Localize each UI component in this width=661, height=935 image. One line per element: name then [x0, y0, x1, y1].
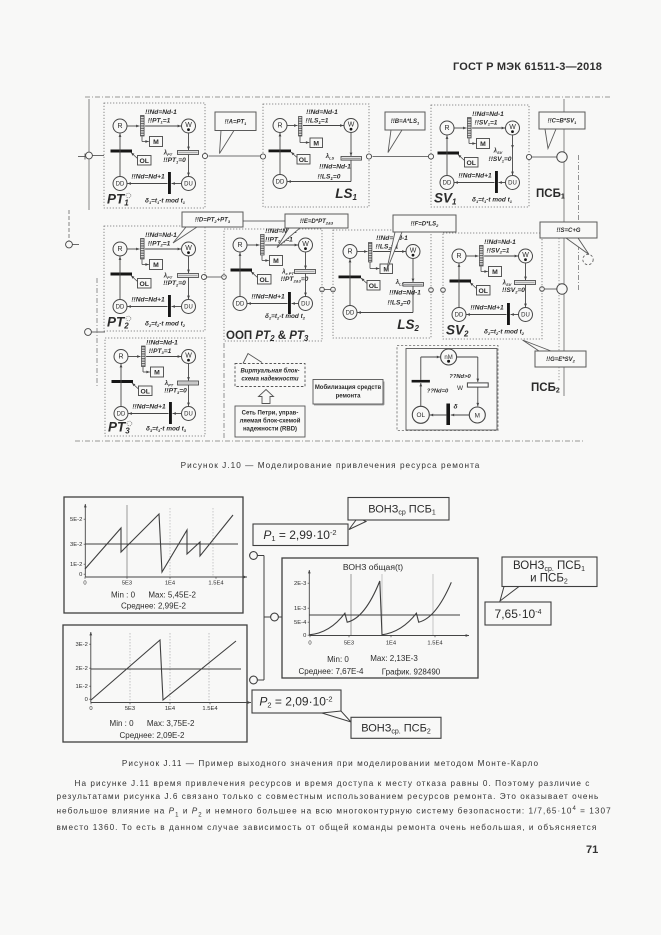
- svg-text:δ1=t1-t mod t1: δ1=t1-t mod t1: [145, 198, 186, 205]
- svg-text:!!PT2=1: !!PT2=1: [148, 240, 171, 247]
- svg-text:M: M: [154, 370, 160, 377]
- svg-text:R: R: [117, 123, 122, 130]
- svg-text:ВОНЗ общая(t): ВОНЗ общая(t): [343, 562, 403, 572]
- svg-text:5E-4: 5E-4: [294, 620, 307, 626]
- svg-text:R: R: [456, 253, 461, 260]
- svg-text:DD: DD: [346, 311, 355, 317]
- svg-text:λLS: λLS: [325, 154, 335, 160]
- svg-text:λc PT: λc PT: [281, 270, 294, 276]
- svg-text:!!Nd=Nd-1: !!Nd=Nd-1: [306, 109, 338, 116]
- svg-text:R: R: [117, 246, 122, 253]
- svg-text:DU: DU: [184, 182, 193, 188]
- svg-text:0: 0: [79, 572, 82, 578]
- svg-text:ремонта: ремонта: [336, 394, 362, 400]
- svg-text:1.5E4: 1.5E4: [202, 706, 218, 712]
- svg-text:0: 0: [85, 697, 88, 703]
- svg-text:!!Nd=Nd-1: !!Nd=Nd-1: [484, 239, 516, 246]
- svg-text:W: W: [509, 124, 516, 131]
- svg-text:!!Nd=Nd-1: !!Nd=Nd-1: [145, 232, 177, 239]
- svg-text:!!SV1=0: !!SV1=0: [489, 156, 512, 163]
- svg-text:0: 0: [308, 641, 311, 647]
- svg-text:DD: DD: [276, 180, 285, 186]
- svg-text:Мобилизация средств: Мобилизация средств: [315, 384, 382, 391]
- svg-text:!!Nd=Nd+1: !!Nd=Nd+1: [470, 305, 504, 312]
- svg-text:Среднее: 7,67E-4: Среднее: 7,67E-4: [299, 667, 365, 676]
- svg-text:OL: OL: [369, 283, 378, 290]
- svg-text:SV2: SV2: [446, 323, 469, 339]
- svg-text:!!PT3=0: !!PT3=0: [164, 388, 187, 395]
- svg-text:δ1=t1-t mod t1: δ1=t1-t mod t1: [472, 197, 513, 204]
- svg-text:1E4: 1E4: [165, 581, 176, 587]
- svg-text:5E-2: 5E-2: [70, 517, 82, 523]
- svg-text:7,65·10-4: 7,65·10-4: [495, 607, 542, 621]
- svg-text:1E4: 1E4: [165, 706, 176, 712]
- svg-text:OL: OL: [466, 160, 475, 167]
- svg-text:DD: DD: [116, 182, 125, 188]
- svg-text:R: R: [444, 125, 449, 132]
- svg-text:!!LS1=1: !!LS1=1: [306, 118, 329, 125]
- svg-text:R: R: [118, 354, 123, 361]
- svg-text:OL: OL: [140, 388, 149, 395]
- svg-text:OL: OL: [139, 158, 148, 165]
- svg-text:0: 0: [303, 633, 306, 639]
- svg-text:!!A=PT1: !!A=PT1: [225, 119, 248, 125]
- svg-text:R: R: [347, 249, 352, 256]
- svg-text:!!Nd=Nd-1: !!Nd=Nd-1: [472, 111, 504, 118]
- svg-text:DD: DD: [443, 181, 452, 187]
- svg-text:!!PT1=0: !!PT1=0: [163, 157, 186, 164]
- svg-text:0: 0: [83, 581, 86, 587]
- svg-text:δ: δ: [453, 404, 458, 411]
- svg-text:??Nd>0: ??Nd>0: [449, 374, 471, 380]
- svg-text:!!Nd=Nd+1: !!Nd=Nd+1: [458, 173, 492, 180]
- svg-text:PT2: PT2: [107, 315, 129, 331]
- svg-text:!!Nd=Nd+1: !!Nd=Nd+1: [131, 297, 165, 304]
- svg-text:!!Nd=Nd-1: !!Nd=Nd-1: [146, 340, 178, 347]
- svg-text:и ПСБ2: и ПСБ2: [530, 573, 568, 586]
- svg-text:1E-2: 1E-2: [76, 684, 88, 690]
- svg-text:M: M: [492, 269, 498, 276]
- svg-text:M: M: [313, 140, 319, 147]
- svg-text:3E-2: 3E-2: [76, 642, 88, 648]
- svg-text:1E-2: 1E-2: [70, 562, 82, 568]
- svg-text:1.5E4: 1.5E4: [208, 581, 224, 587]
- svg-text:Min: 0: Min: 0: [327, 655, 349, 664]
- svg-text:DU: DU: [508, 181, 517, 187]
- svg-text:λPT: λPT: [163, 151, 173, 157]
- svg-text:!!SV1=1: !!SV1=1: [475, 119, 498, 126]
- svg-text:M: M: [153, 139, 159, 146]
- svg-text:W: W: [348, 122, 355, 129]
- svg-text:5E3: 5E3: [125, 706, 135, 712]
- svg-text:OL: OL: [139, 281, 148, 288]
- svg-text:M: M: [153, 262, 159, 269]
- svg-text:!!Nd=Nd-1: !!Nd=Nd-1: [376, 235, 408, 242]
- svg-text:!!Nd=Nd-1: !!Nd=Nd-1: [389, 290, 421, 297]
- svg-text:!!LS2=0: !!LS2=0: [388, 300, 411, 307]
- svg-text:DD: DD: [455, 313, 464, 319]
- svg-text:!!PT2&3=0: !!PT2&3=0: [281, 276, 309, 283]
- svg-text:!!LS1=0: !!LS1=0: [318, 174, 341, 181]
- svg-text:DU: DU: [184, 305, 193, 311]
- svg-text:!!SV2=1: !!SV2=1: [487, 247, 510, 254]
- svg-text:5E3: 5E3: [122, 581, 132, 587]
- svg-text:!!Nd=Nd+1: !!Nd=Nd+1: [131, 174, 165, 181]
- svg-text:Min : 0 Max: 3,75E-2: Min : 0 Max: 3,75E-2: [110, 719, 195, 728]
- svg-text:λPT: λPT: [164, 381, 174, 387]
- svg-text:Виртуальная блок-: Виртуальная блок-: [240, 368, 299, 375]
- svg-text:!!E=D*PT2&3: !!E=D*PT2&3: [300, 219, 334, 225]
- svg-text:DU: DU: [301, 302, 310, 308]
- svg-text:!!Nd=Nd-1: !!Nd=Nd-1: [145, 109, 177, 116]
- svg-text:PT3: PT3: [108, 420, 130, 436]
- svg-text:R: R: [237, 242, 242, 249]
- svg-text:!!Nd=Nd-1: !!Nd=Nd-1: [319, 164, 351, 171]
- svg-text:Сеть Петри, управ-: Сеть Петри, управ-: [242, 411, 299, 417]
- svg-text:δ2=t2-t mod t2: δ2=t2-t mod t2: [265, 313, 306, 320]
- svg-text:DD: DD: [117, 412, 126, 418]
- svg-text:δ3=t3-t mod t3: δ3=t3-t mod t3: [146, 426, 187, 433]
- svg-text:M: M: [480, 141, 486, 148]
- svg-text:W: W: [185, 122, 192, 129]
- svg-text:W: W: [185, 245, 192, 252]
- svg-text:??Nd=0: ??Nd=0: [427, 389, 449, 395]
- svg-text:Max: 2,13E-3: Max: 2,13E-3: [370, 654, 418, 663]
- svg-text:!!PT3=1: !!PT3=1: [149, 348, 172, 355]
- svg-text:W: W: [410, 248, 417, 255]
- svg-text:PT1: PT1: [107, 192, 129, 208]
- svg-text:W: W: [185, 353, 192, 360]
- svg-text:!!PT2=0: !!PT2=0: [163, 280, 186, 287]
- svg-text:λSV: λSV: [502, 281, 512, 287]
- svg-text:!!C=B*SV1: !!C=B*SV1: [548, 119, 578, 125]
- svg-text:!!Nd=Nd+1: !!Nd=Nd+1: [132, 404, 166, 411]
- svg-text:ПСБ1: ПСБ1: [536, 188, 565, 200]
- svg-text:OL: OL: [299, 157, 308, 164]
- svg-text:ПСБ2: ПСБ2: [531, 382, 560, 394]
- svg-text:!!F=D*LS2: !!F=D*LS2: [411, 222, 440, 228]
- svg-text:λPT: λPT: [163, 274, 173, 280]
- svg-text:0: 0: [89, 706, 92, 712]
- svg-text:DU: DU: [521, 313, 530, 319]
- svg-text:DD: DD: [236, 302, 245, 308]
- svg-text:DD: DD: [116, 305, 125, 311]
- svg-text:W: W: [302, 241, 309, 248]
- svg-text:ООП PT2 & PT3: ООП PT2 & PT3: [226, 330, 309, 343]
- svg-text:δ2=t2-t mod t2: δ2=t2-t mod t2: [484, 329, 525, 336]
- svg-text:OL: OL: [478, 288, 487, 295]
- svg-text:2E-3: 2E-3: [294, 581, 306, 587]
- svg-text:Среднее: 2,09E-2: Среднее: 2,09E-2: [120, 731, 186, 740]
- svg-text:W: W: [457, 385, 464, 392]
- svg-text:M: M: [273, 258, 279, 265]
- svg-text:1.5E4: 1.5E4: [427, 641, 443, 647]
- svg-text:Min : 0 Max: 5,45E-2: Min : 0 Max: 5,45E-2: [111, 591, 196, 600]
- svg-text:!!PT1=1: !!PT1=1: [148, 117, 171, 124]
- svg-text:R: R: [277, 123, 282, 130]
- svg-text:!!Nd=Nd+1: !!Nd=Nd+1: [251, 294, 285, 301]
- svg-text:DU: DU: [184, 412, 193, 418]
- svg-text:надежности (RBD): надежности (RBD): [243, 427, 297, 433]
- svg-text:1E-3: 1E-3: [294, 606, 306, 612]
- svg-text:!!D=PT2+PT3: !!D=PT2+PT3: [195, 218, 231, 224]
- svg-text:W: W: [522, 252, 529, 259]
- svg-text:LS1: LS1: [335, 186, 357, 202]
- svg-text:3E-2: 3E-2: [70, 542, 82, 548]
- svg-text:OL: OL: [259, 277, 268, 284]
- svg-text:5E3: 5E3: [344, 641, 354, 647]
- svg-text:M: M: [475, 412, 480, 419]
- svg-text:δ2=t2-t mod t2: δ2=t2-t mod t2: [145, 321, 186, 328]
- svg-text:SV1: SV1: [434, 191, 457, 207]
- svg-text:ляемая блок-схемой: ляемая блок-схемой: [240, 418, 301, 425]
- svg-text:Среднее: 2,99E-2: Среднее: 2,99E-2: [121, 602, 187, 611]
- svg-text:!!B=A*LS1: !!B=A*LS1: [391, 119, 420, 125]
- svg-text:!!SV2=0: !!SV2=0: [502, 287, 525, 294]
- svg-text:схема надежности: схема надежности: [241, 377, 299, 383]
- svg-text:λSV: λSV: [493, 149, 503, 155]
- svg-text:OL: OL: [417, 412, 426, 419]
- svg-text:1E4: 1E4: [386, 641, 397, 647]
- svg-text:График. 928490: График. 928490: [382, 668, 441, 677]
- svg-text:!!G=E*SV2: !!G=E*SV2: [546, 357, 576, 363]
- svg-text:2E-2: 2E-2: [76, 666, 88, 672]
- svg-text:LS2: LS2: [397, 317, 419, 333]
- svg-text:!!S=C+G: !!S=C+G: [556, 228, 580, 234]
